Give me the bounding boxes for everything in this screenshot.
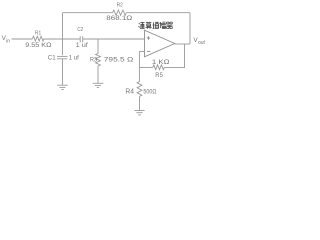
svg-text:out: out — [198, 40, 206, 46]
node A junction — [62, 38, 64, 40]
svg-text:500Ω: 500Ω — [143, 88, 156, 95]
wire C2 to op-amp plus input — [83, 38, 145, 40]
node Vin — [2, 35, 11, 44]
svg-text:1 KΩ: 1 KΩ — [152, 59, 170, 66]
svg-text:C1: C1 — [48, 55, 56, 61]
svg-text:C2: C2 — [77, 27, 83, 33]
resistor R2 — [113, 10, 127, 15]
resistor R1 — [33, 36, 45, 41]
ground (below C1) — [57, 85, 68, 89]
wire node A to C2 — [63, 38, 81, 40]
wire node C down to R4 — [138, 67, 140, 81]
capacitor C2 — [80, 36, 83, 42]
svg-text:1 uf: 1 uf — [76, 42, 89, 49]
node Vout — [193, 37, 205, 46]
svg-text:R4: R4 — [125, 86, 134, 95]
svg-text:R1: R1 — [35, 30, 41, 36]
wire R1 to node A — [44, 38, 63, 40]
resistor R4 — [137, 82, 142, 97]
wire top rail left segment — [63, 12, 113, 14]
wire node B down to R3 — [97, 39, 99, 54]
svg-text:in: in — [6, 38, 10, 44]
wire op-amp output — [175, 43, 190, 45]
wire top rail right segment — [126, 12, 190, 14]
node B junction (R3 tap) — [97, 38, 99, 40]
svg-text:R3: R3 — [90, 56, 97, 63]
label op-amp (Chinese: operational amplifier) — [139, 22, 173, 29]
svg-text:1 uf: 1 uf — [69, 55, 79, 61]
svg-text:R5: R5 — [155, 72, 163, 79]
op-amp U1 — [145, 30, 175, 57]
wire R5 to output node — [164, 44, 184, 67]
wire node C to R5 — [139, 66, 152, 68]
wire R3 to ground — [97, 66, 99, 83]
svg-text:795.5 Ω: 795.5 Ω — [104, 57, 133, 64]
svg-text:868.1Ω: 868.1Ω — [106, 15, 132, 22]
svg-text:9.55 KΩ: 9.55 KΩ — [25, 42, 51, 49]
capacitor C1 — [57, 39, 68, 85]
svg-text:R2: R2 — [117, 3, 123, 9]
wire R4 to ground — [139, 96, 141, 110]
resistor R5 — [153, 65, 165, 70]
wire Vin to R1 — [12, 38, 33, 40]
node C junction (minus node) — [138, 66, 140, 68]
wire op-amp minus input — [139, 51, 144, 67]
ground (below R4) — [134, 111, 144, 115]
wire feedback down to output — [189, 13, 191, 44]
wire node A up to feedback rail — [62, 13, 64, 39]
resistor R3 — [96, 54, 101, 67]
ground (below R3) — [93, 83, 104, 87]
